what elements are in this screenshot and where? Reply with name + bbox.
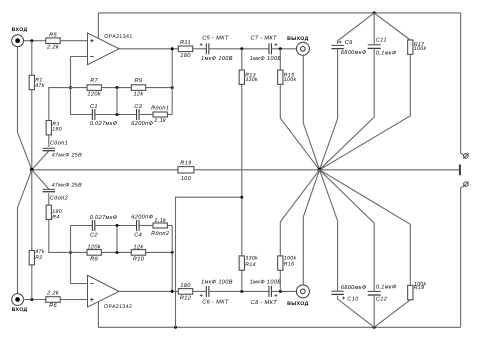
- svg-text:C11: C11: [376, 37, 387, 43]
- node C1-C3 junction: [116, 113, 119, 116]
- resistor R7 120k: [87, 78, 102, 97]
- label C11: [376, 37, 397, 56]
- wire R12 to C6: [193, 290, 207, 292]
- svg-text:R7: R7: [90, 78, 98, 84]
- svg-text:2.2k: 2.2k: [46, 290, 60, 297]
- svg-text:R6: R6: [49, 303, 57, 309]
- svg-text:330k: 330k: [245, 256, 258, 262]
- capacitor C8 1мкФ МКТ: [250, 280, 282, 306]
- label C9: [339, 40, 367, 56]
- svg-text:OPA21342: OPA21342: [104, 304, 132, 310]
- resistor R10 12k: [131, 244, 145, 263]
- wire Cdop2 to star ground A: [32, 170, 49, 189]
- resistor R5 2.2k: [46, 32, 60, 50]
- wire C6 to C8: [209, 290, 269, 292]
- node output feedback tap: [171, 47, 174, 50]
- svg-text:6200пФ: 6200пФ: [131, 121, 153, 127]
- wire rail to C11: [373, 13, 375, 44]
- wire feedback left vertical: [70, 88, 72, 115]
- capacitor C4 6200пФ: [131, 215, 153, 239]
- resistor Rдоп1 1.1k: [151, 104, 169, 123]
- svg-text:C9: C9: [345, 40, 353, 46]
- svg-text:ВЫХОД: ВЫХОД: [287, 301, 308, 307]
- resistor R3 180: [46, 121, 62, 135]
- node R16 tap: [279, 290, 282, 293]
- svg-text:R10: R10: [133, 257, 145, 263]
- wire feedback left vertical bottom: [70, 226, 72, 253]
- svg-text:R12: R12: [180, 296, 192, 302]
- wire -V terminal to bottom rail: [461, 186, 464, 327]
- wire op-amp U2 output: [119, 290, 178, 292]
- wire output1 shield to star ground: [303, 55, 319, 170]
- svg-text:Rдоп1: Rдоп1: [151, 104, 169, 111]
- svg-text:C7 - МКТ: C7 - МКТ: [251, 35, 278, 41]
- wire C1 row left: [71, 114, 93, 116]
- node feedback left junction bottom: [69, 251, 72, 254]
- resistor R11 180: [178, 40, 192, 59]
- capacitor C9 6800мкФ: [331, 45, 343, 48]
- wire input2 to R6: [24, 299, 46, 301]
- wire link -V rail to R13-R14 node: [176, 197, 242, 327]
- resistor R15 100k: [278, 70, 297, 84]
- wire R8 row left: [71, 251, 88, 253]
- svg-text:6800мкФ: 6800мкФ: [341, 285, 367, 291]
- wire C2 row left: [71, 225, 93, 227]
- resistor R19 100: [178, 160, 194, 181]
- node -V rail junction C10: [373, 326, 376, 329]
- wire Cdop1 to star ground A: [32, 151, 49, 170]
- wire op-amp U1 output: [119, 48, 178, 50]
- wire rail to C12: [373, 296, 375, 328]
- wire rail to R17: [374, 13, 410, 40]
- svg-text:C1: C1: [90, 104, 98, 110]
- wire C3 to Rdop1: [139, 114, 153, 116]
- wire star to ground terminal: [320, 169, 459, 171]
- wire R13 to R14 vertical: [241, 84, 243, 256]
- wire junction to R1: [31, 41, 33, 76]
- svg-text:Сдоп1: Сдоп1: [50, 139, 68, 146]
- resistor R9 12k: [131, 78, 145, 97]
- wire Rdop1 to output feedback vertical: [167, 114, 172, 116]
- wire +V top rail: [98, 12, 461, 14]
- capacitor C10 6800мкФ: [331, 291, 343, 294]
- resistor R17 100k: [408, 40, 427, 54]
- wire R17 to star ground: [320, 54, 411, 169]
- wire R5 to op-amp +: [60, 40, 87, 42]
- wire R10 to feedback right vertical bottom: [146, 251, 173, 253]
- wire R16 bottom: [279, 270, 281, 291]
- capacitor C7 1мкФ МКТ: [250, 35, 282, 62]
- svg-text:C2: C2: [90, 232, 98, 238]
- wire Rdop2 to feedback vertical bottom: [167, 225, 172, 227]
- wire R11 to C5: [193, 48, 207, 50]
- svg-text:47k: 47k: [35, 83, 44, 89]
- wire R7 to R9: [101, 87, 131, 89]
- resistor R6 2.2k: [46, 290, 60, 310]
- svg-text:R4: R4: [52, 214, 59, 220]
- wire R3 to Cdop1: [48, 135, 50, 147]
- resistor R12 180: [178, 283, 192, 302]
- wire R7 row left: [71, 87, 88, 89]
- label Cdop1: [50, 139, 82, 158]
- svg-text:330k: 330k: [245, 77, 258, 83]
- svg-text:ВХОД: ВХОД: [12, 27, 28, 33]
- svg-text:100k: 100k: [284, 255, 297, 261]
- wire -V bottom rail: [98, 326, 461, 328]
- rca output connector XS4 (ВЫХОД bottom): [287, 285, 309, 307]
- svg-text:180: 180: [52, 127, 62, 133]
- wire R18 to star ground: [320, 170, 411, 286]
- svg-text:47мкФ 25В: 47мкФ 25В: [52, 182, 82, 188]
- wire R2 to star ground A: [31, 170, 33, 251]
- node feedback right junction bottom: [171, 251, 174, 254]
- svg-text:C12: C12: [376, 296, 388, 302]
- svg-text:R9: R9: [135, 78, 143, 84]
- svg-text:1,1k: 1,1k: [154, 117, 167, 124]
- wire input2 shield to star ground A: [18, 170, 32, 294]
- wire rail to R18: [374, 300, 410, 328]
- svg-text:OPA21341: OPA21341: [104, 34, 132, 40]
- wire feedback vertical from output: [171, 49, 173, 115]
- svg-text:Сдоп2: Сдоп2: [50, 194, 69, 201]
- node feedback left junction: [69, 86, 72, 89]
- capacitor Сдоп1 47мкФ 25В: [43, 148, 55, 150]
- op-amp U1 OPA21341: [88, 33, 133, 65]
- svg-text:R11: R11: [180, 40, 191, 46]
- svg-text:100k: 100k: [284, 77, 297, 83]
- wire inverting node to R4: [49, 220, 71, 253]
- svg-text:C3: C3: [134, 104, 142, 110]
- wire C2 to C4: [95, 225, 136, 227]
- svg-text:C8 - МКТ: C8 - МКТ: [251, 300, 278, 306]
- svg-text:C4: C4: [134, 232, 142, 238]
- wire inverting node to R3: [49, 88, 71, 121]
- node R7-R9 junction: [116, 86, 119, 89]
- svg-text:120k: 120k: [87, 90, 101, 97]
- wire C12 to star ground: [320, 170, 375, 292]
- wire junction to R2: [31, 265, 33, 300]
- svg-text:180: 180: [180, 283, 191, 289]
- capacitor C11 0.1мкФ: [368, 45, 381, 49]
- wire R1 to star ground A: [31, 90, 33, 170]
- svg-text:0,1мкФ: 0,1мкФ: [376, 284, 397, 290]
- node input junction bottom: [30, 298, 33, 301]
- resistor R14 330k: [239, 256, 258, 271]
- wire star to left ground bus: [32, 169, 178, 171]
- svg-text:R2: R2: [35, 255, 42, 261]
- wire R7R9 to C1C3 vertical: [116, 88, 118, 115]
- wire op-amp U2 V- pin to bottom rail: [97, 302, 99, 328]
- capacitor C12 0.1мкФ: [368, 291, 381, 295]
- svg-text:Rдоп2: Rдоп2: [151, 230, 170, 237]
- svg-text:C5 - МКТ: C5 - МКТ: [202, 35, 229, 41]
- resistor Rдоп2 1.1k: [151, 217, 170, 237]
- wire R9 to feedback right vertical: [146, 87, 173, 89]
- label Cdop2: [50, 182, 82, 201]
- wire input to R5: [24, 40, 46, 42]
- capacitor C6 1мкФ МКТ: [200, 280, 233, 306]
- svg-text:12k: 12k: [133, 244, 144, 251]
- node R15 tap: [279, 47, 282, 50]
- svg-text:0.027мкФ: 0.027мкФ: [90, 121, 118, 127]
- op-amp U2 OPA21342: [88, 275, 133, 310]
- terminal -V clamp: [463, 182, 468, 187]
- resistor R2 47k: [29, 249, 45, 265]
- wire R8R10 to C2C4 vertical: [116, 226, 118, 253]
- wire R19 to star: [194, 169, 319, 171]
- wire R16 to star ground: [280, 170, 319, 256]
- node input junction top: [30, 39, 33, 42]
- resistor R16 100k: [278, 255, 297, 270]
- svg-text:47мкФ 25В: 47мкФ 25В: [52, 153, 82, 159]
- svg-text:1мкФ 100В: 1мкФ 100В: [201, 56, 233, 62]
- svg-text:1,1k: 1,1k: [154, 217, 167, 224]
- capacitor Сдоп2 47мкФ 25В: [43, 189, 55, 191]
- resistor R4 180: [46, 205, 62, 220]
- svg-text:100k: 100k: [414, 46, 427, 52]
- wire C1 to C3: [95, 114, 136, 116]
- terminal +V clamp: [463, 153, 468, 158]
- capacitor C5 1мкФ МКТ: [200, 35, 233, 62]
- node R13 tap: [240, 47, 243, 50]
- capacitor C1 0.027мкФ: [90, 104, 118, 127]
- node -V rail junction link: [174, 326, 177, 329]
- node C2-C4 junction: [116, 224, 119, 227]
- wire feedback vertical from output bottom: [171, 226, 173, 292]
- wire C10 to star ground: [320, 170, 338, 291]
- wire C8 to output connector 2: [272, 290, 297, 292]
- rca input connector XS3 (ВХОД bottom): [12, 294, 28, 314]
- svg-text:120k: 120k: [87, 244, 101, 251]
- svg-text:100: 100: [181, 176, 192, 182]
- wire +V rail right side down: [461, 13, 464, 155]
- svg-text:ВХОД: ВХОД: [12, 307, 28, 313]
- wire R8 to R10: [101, 251, 131, 253]
- svg-text:C6 - МКТ: C6 - МКТ: [202, 299, 229, 305]
- svg-text:12k: 12k: [133, 90, 144, 97]
- svg-text:180: 180: [180, 53, 191, 59]
- svg-text:1мкФ 100В: 1мкФ 100В: [201, 280, 233, 286]
- node left star ground A: [30, 168, 34, 172]
- resistor R8 120k: [87, 244, 102, 263]
- node feedback right junction: [171, 86, 174, 89]
- wire R14 bottom: [241, 270, 243, 291]
- wire op-amp U2 inverting input: [71, 252, 88, 283]
- wire C11 to star ground: [320, 48, 375, 169]
- wire R13 top: [241, 49, 243, 70]
- svg-text:R8: R8: [90, 257, 98, 263]
- node output feedback tap bottom: [171, 290, 174, 293]
- wire rail to C10: [338, 296, 375, 328]
- wire output2 shield to star ground: [303, 170, 319, 286]
- svg-text:1мкФ 100В: 1мкФ 100В: [250, 280, 282, 286]
- wire C5 to C7: [209, 48, 269, 50]
- wire C7 to output connector: [272, 48, 297, 50]
- label C12: [376, 284, 397, 302]
- svg-text:R14: R14: [245, 262, 256, 268]
- svg-text:0,1мкФ: 0,1мкФ: [376, 50, 397, 56]
- wire R15 to star ground: [280, 84, 319, 169]
- resistor R18 100k: [408, 281, 427, 300]
- node R14 tap: [240, 290, 243, 293]
- label C10: [341, 285, 367, 303]
- svg-text:R5: R5: [49, 32, 57, 38]
- svg-text:2.2k: 2.2k: [46, 44, 60, 51]
- wire input1 shield to star ground A: [18, 47, 32, 170]
- svg-text:R16: R16: [284, 262, 295, 268]
- wire C9 to star ground: [320, 49, 338, 170]
- ground terminal bar: [459, 165, 461, 176]
- resistor R13 330k: [239, 70, 258, 84]
- wire rail to C9: [338, 13, 375, 44]
- rca output connector XS2 (ВЫХОД top): [287, 36, 309, 55]
- svg-text:0.027мкФ: 0.027мкФ: [90, 215, 118, 221]
- wire R4 to Cdop2: [48, 193, 50, 205]
- svg-text:6200пФ: 6200пФ: [131, 215, 153, 221]
- resistor R1 47k: [29, 75, 45, 89]
- wire R6 to op-amp2 +: [60, 299, 87, 301]
- rca input connector XS1 (ВХОД top): [12, 27, 28, 46]
- svg-text:R18: R18: [414, 285, 425, 291]
- node R13-R14 link junction: [240, 196, 243, 199]
- svg-text:1мкФ 100В: 1мкФ 100В: [250, 56, 282, 62]
- svg-text:C10: C10: [347, 297, 359, 303]
- wire op-amp U1 inverting input: [71, 57, 88, 88]
- wire R15 top: [279, 49, 281, 70]
- node R8-R10 junction: [116, 251, 119, 254]
- svg-text:R19: R19: [180, 160, 191, 166]
- node +V rail junction: [373, 11, 376, 14]
- capacitor C3 6200пФ: [131, 104, 153, 127]
- svg-text:6800мкФ: 6800мкФ: [341, 50, 367, 56]
- svg-text:ВЫХОД: ВЫХОД: [287, 36, 308, 42]
- node star ground point: [317, 168, 321, 172]
- capacitor C2 0.027мкФ: [90, 215, 118, 238]
- wire op-amp U1 V+ pin to top rail: [97, 13, 99, 39]
- wire C4 to Rdop2: [139, 225, 153, 227]
